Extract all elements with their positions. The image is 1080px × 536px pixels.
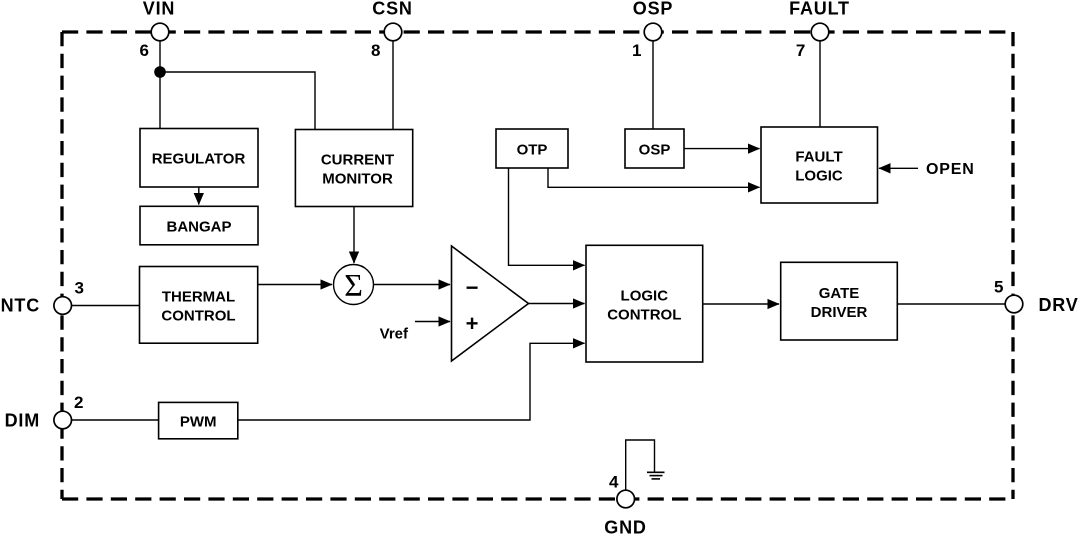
svg-text:GND: GND	[604, 518, 646, 536]
pin 6 VIN	[140, 0, 176, 60]
IC boundary dashed border	[62, 32, 1013, 499]
svg-text:BANGAP: BANGAP	[166, 218, 231, 235]
block OSP	[625, 129, 684, 168]
svg-text:6: 6	[140, 41, 149, 60]
wire OPEN to FAULT LOGIC	[879, 167, 918, 169]
svg-text:OSP: OSP	[633, 0, 673, 19]
svg-text:+: +	[466, 311, 479, 336]
svg-text:3: 3	[75, 279, 84, 298]
svg-text:NTC: NTC	[1, 296, 40, 316]
svg-text:OTP: OTP	[517, 141, 548, 158]
svg-text:8: 8	[371, 41, 380, 60]
wire CSN pin to CURRENT MONITOR	[392, 40, 394, 130]
svg-text:5: 5	[994, 278, 1003, 297]
wire OTP to LOGIC CONTROL	[509, 168, 585, 265]
svg-text:CSN: CSN	[372, 0, 412, 19]
svg-text:LOGIC: LOGIC	[621, 287, 669, 304]
svg-text:LOGIC: LOGIC	[795, 168, 843, 185]
svg-text:1: 1	[632, 41, 641, 60]
pin 7 FAULT	[789, 0, 850, 60]
block PWM	[159, 402, 238, 438]
svg-text:DRV: DRV	[1039, 295, 1079, 315]
svg-text:7: 7	[796, 41, 805, 60]
wire GND pin to ground symbol	[626, 440, 655, 491]
svg-text:OSP: OSP	[639, 141, 671, 158]
wire comparator output to LOGIC CONTROL	[529, 303, 585, 305]
wire FAULT pin to FAULT LOGIC	[819, 40, 821, 127]
svg-text:MONITOR: MONITOR	[322, 171, 393, 188]
wire junction to CURRENT MONITOR	[160, 72, 315, 130]
wire GATE DRIVER to DRV pin	[897, 303, 1005, 305]
pin 5 DRV	[994, 278, 1079, 316]
block OTP	[496, 129, 568, 168]
wire OTP to FAULT LOGIC	[548, 168, 760, 187]
wire REGULATOR to BANGAP	[198, 187, 200, 205]
wire NTC pin to THERMAL CONTROL	[71, 305, 140, 307]
ground symbol	[647, 472, 665, 479]
pin 1 OSP	[632, 0, 673, 60]
block BANGAP	[140, 206, 258, 245]
wire OSP pin to OSP block	[652, 40, 654, 129]
wire Vref to comparator plus input	[415, 321, 450, 323]
svg-text:FAULT: FAULT	[789, 0, 850, 19]
wire CURRENT MONITOR to summer	[353, 207, 355, 264]
node junction on VIN wire	[154, 66, 166, 78]
pin 4 GND	[604, 473, 646, 536]
svg-text:CONTROL: CONTROL	[161, 308, 235, 325]
summer sigma circle	[334, 265, 374, 305]
svg-text:PWM: PWM	[180, 413, 217, 430]
block LOGIC CONTROL	[586, 245, 703, 362]
svg-text:DRIVER: DRIVER	[811, 304, 868, 321]
svg-text:4: 4	[609, 473, 619, 492]
svg-text:OPEN: OPEN	[926, 161, 975, 178]
wire PWM to LOGIC CONTROL	[238, 343, 585, 420]
wire summer to comparator minus input	[374, 284, 451, 286]
wire OSP block to FAULT LOGIC	[684, 148, 760, 150]
wire THERMAL CONTROL to summer	[258, 284, 332, 286]
svg-text:VIN: VIN	[143, 0, 175, 19]
block THERMAL CONTROL	[140, 267, 258, 344]
comparator U1	[452, 246, 529, 361]
wire DIM pin to PWM	[71, 419, 159, 421]
svg-text:THERMAL: THERMAL	[162, 289, 235, 306]
svg-text:REGULATOR: REGULATOR	[152, 151, 246, 168]
svg-text:CONTROL: CONTROL	[607, 306, 681, 323]
svg-text:Vref: Vref	[380, 326, 409, 343]
wire VIN pin to REGULATOR	[159, 40, 161, 129]
svg-text:2: 2	[74, 393, 83, 412]
block REGULATOR	[140, 129, 258, 188]
svg-text:Σ: Σ	[344, 267, 363, 303]
pin 3 NTC	[1, 279, 84, 316]
block CURRENT MONITOR	[295, 130, 412, 207]
block GATE DRIVER	[781, 262, 898, 340]
svg-text:FAULT: FAULT	[795, 149, 842, 166]
pin 2 DIM	[5, 393, 84, 431]
svg-text:GATE: GATE	[819, 285, 860, 302]
svg-text:−: −	[466, 275, 479, 300]
wire LOGIC CONTROL to GATE DRIVER	[703, 303, 779, 305]
pin 8 CSN	[371, 0, 413, 60]
svg-text:CURRENT: CURRENT	[321, 152, 394, 169]
block FAULT LOGIC	[761, 127, 878, 203]
svg-text:DIM: DIM	[5, 411, 40, 431]
